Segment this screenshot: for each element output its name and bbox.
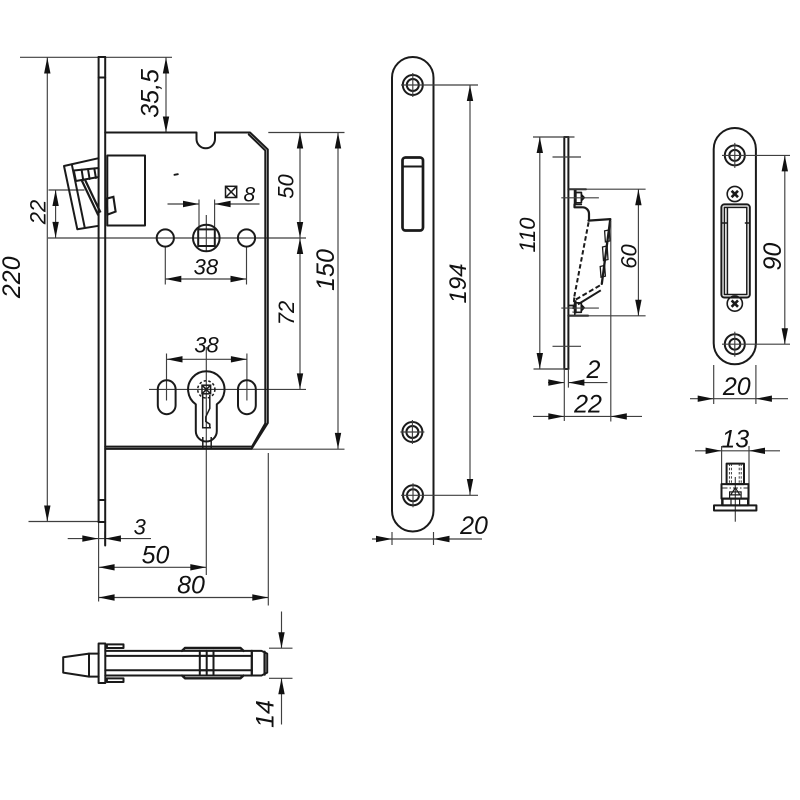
svg-text:14: 14	[252, 700, 280, 728]
svg-text:22: 22	[26, 200, 51, 225]
svg-text:38: 38	[194, 255, 219, 280]
svg-text:38: 38	[194, 333, 219, 358]
svg-text:150: 150	[312, 249, 340, 291]
svg-text:20: 20	[722, 373, 751, 401]
svg-text:50: 50	[274, 174, 299, 199]
svg-text:194: 194	[445, 263, 472, 303]
svg-text:8: 8	[244, 183, 256, 206]
svg-text:220: 220	[0, 256, 26, 299]
svg-text:80: 80	[177, 572, 205, 600]
svg-text:72: 72	[274, 301, 299, 325]
svg-text:20: 20	[459, 512, 488, 540]
svg-text:60: 60	[617, 244, 642, 269]
svg-text:110: 110	[515, 217, 540, 253]
svg-text:13: 13	[721, 426, 749, 454]
svg-text:50: 50	[142, 542, 170, 570]
svg-text:35,5: 35,5	[137, 69, 165, 118]
svg-text:3: 3	[134, 515, 147, 540]
svg-text:90: 90	[759, 243, 787, 271]
svg-text:2: 2	[586, 356, 601, 384]
svg-text:22: 22	[573, 391, 602, 419]
